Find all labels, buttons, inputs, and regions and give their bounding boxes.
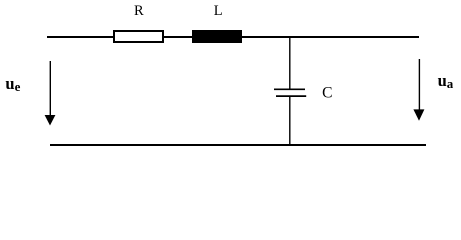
svg-text:C: C — [322, 84, 332, 101]
wire between R and L — [163, 36, 192, 38]
svg-text:ua: ua — [438, 71, 454, 91]
svg-text:ue: ue — [5, 74, 20, 94]
wire capacitor bottom stub — [289, 97, 291, 145]
resistor R — [113, 30, 164, 43]
capacitor C top plate — [274, 88, 305, 90]
arrow u_e head — [45, 115, 56, 126]
arrow u_a head — [413, 109, 424, 120]
wire top-left segment — [47, 36, 114, 38]
svg-text:L: L — [214, 3, 223, 19]
capacitor C bottom plate — [276, 95, 306, 97]
wire bottom — [50, 144, 426, 146]
wire top-right segment — [242, 36, 419, 38]
wire capacitor top stub — [289, 37, 291, 89]
inductor L — [192, 30, 242, 43]
svg-text:R: R — [134, 3, 144, 19]
arrow u_e line — [49, 61, 51, 116]
arrow u_a line — [418, 59, 420, 110]
